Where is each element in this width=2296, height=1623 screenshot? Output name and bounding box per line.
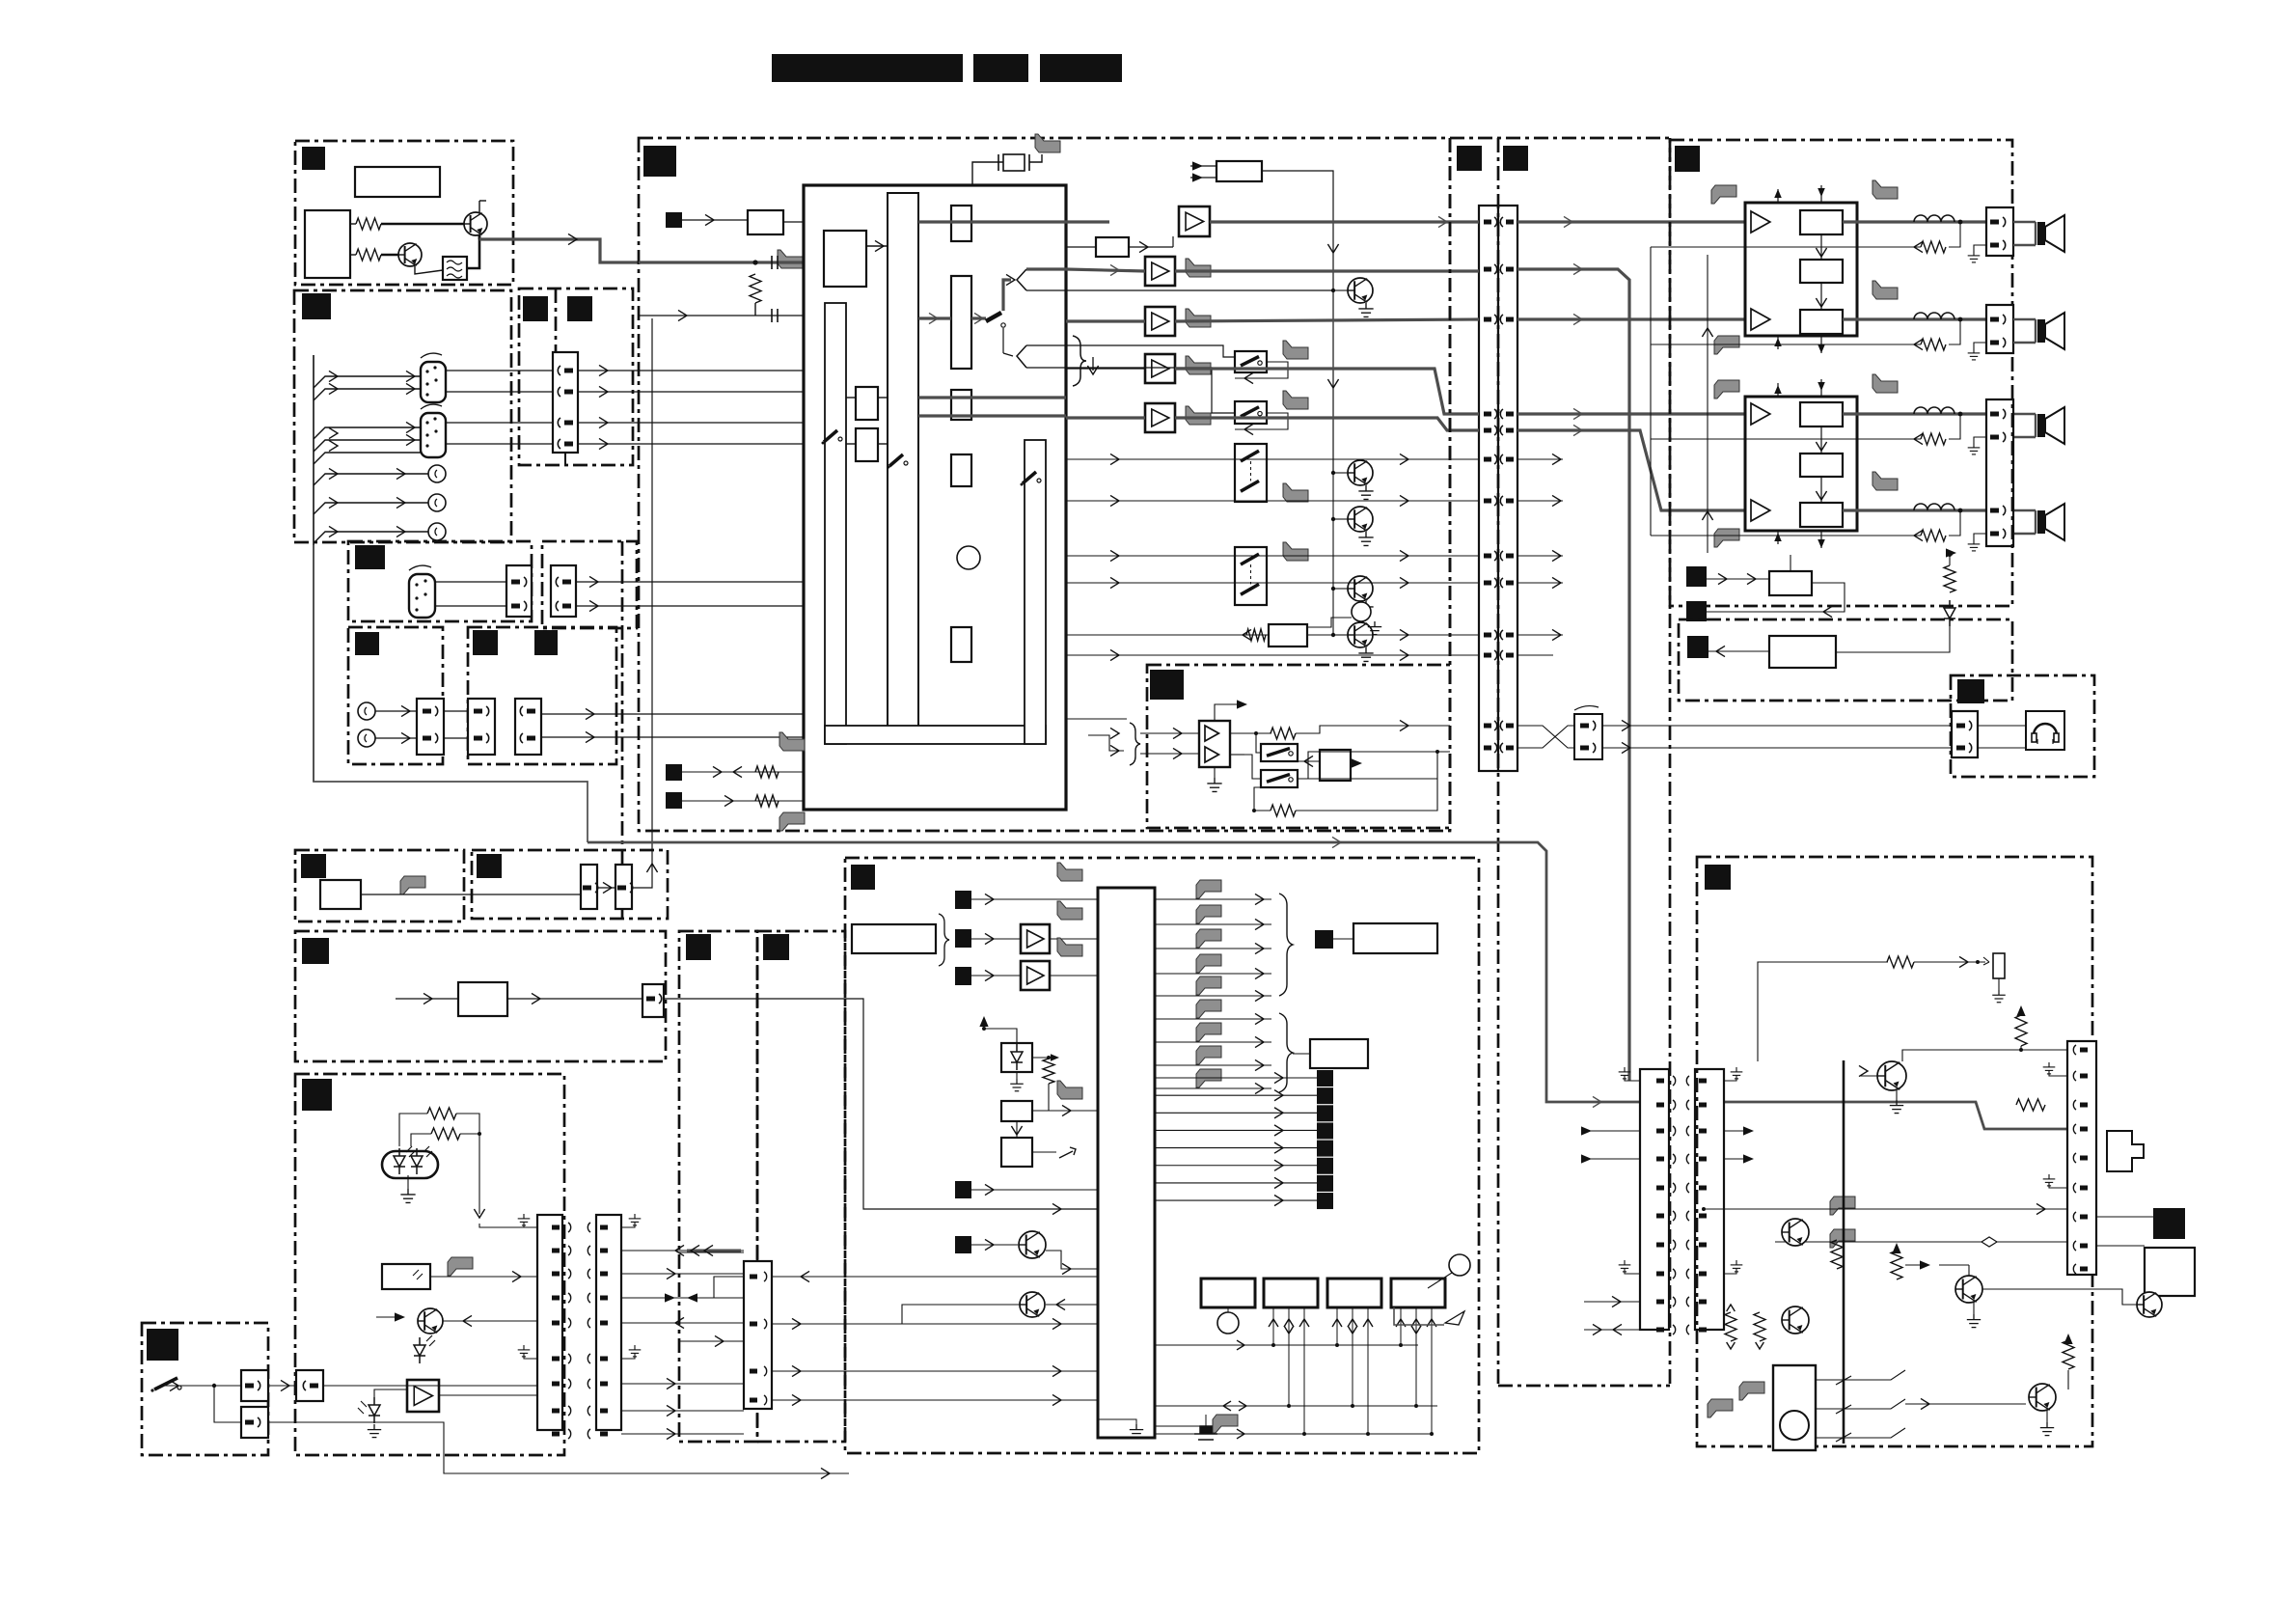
amp A4 [1145, 354, 1175, 383]
socket B3 [428, 523, 446, 540]
wire brace g2 to J5 [1293, 1053, 1310, 1055]
flag g2 1 [1196, 1023, 1221, 1041]
feedback vertical line [1650, 247, 1652, 536]
thick wire core to pin box2 [918, 316, 951, 319]
amp A3 [1145, 307, 1175, 336]
CN-P1/P2 pin row y1145 [1656, 1103, 1664, 1108]
wire P row9 [1584, 1301, 1640, 1303]
IC1 U-channel left column [825, 303, 846, 744]
module C label 1 [523, 296, 548, 321]
U3 rect top [1800, 210, 1843, 234]
transistor QM3 [1348, 507, 1373, 532]
wire circle to key [1428, 1273, 1452, 1288]
wire F1 out [361, 894, 581, 895]
tuner bus vertical wire [313, 355, 314, 782]
wire M3 feed [1190, 165, 1216, 167]
CN-H1/H2 pin row y1272 [552, 1225, 560, 1230]
antenna connector CN-B2 [421, 404, 446, 457]
wire MCU to sq 8 [1155, 1199, 1317, 1201]
resistor RH2 [431, 1128, 460, 1140]
wire H to K row y1320 [621, 1273, 744, 1275]
resistor RL3 [1891, 1251, 1902, 1279]
wire IC to A5 [1066, 416, 1145, 419]
CN-H1/H2 pin row y1296 [552, 1249, 560, 1253]
ground QM5 [1358, 647, 1373, 661]
CN-P1/P2 pin row y1378 [1656, 1328, 1664, 1333]
label J in 4 [955, 1181, 971, 1198]
wire to speaker ch1 [2013, 221, 2036, 223]
switch box N1 [1261, 744, 1298, 761]
wire CD to CN-D1 a [435, 581, 506, 583]
flag SW2 [1283, 391, 1308, 409]
label out sq 7 [1317, 1175, 1333, 1192]
wire CN-D2 out a [576, 581, 804, 583]
wire standby 2 [1707, 583, 1845, 612]
ground CN-P1 row8 [1625, 1268, 1640, 1274]
wire front row y604 [1517, 582, 1563, 584]
capacitor C2 [772, 309, 778, 322]
transistor QP3 [1782, 1307, 1809, 1334]
flag J bottom [1213, 1415, 1238, 1433]
wire pot [1307, 618, 1352, 627]
connector CN-I3 [296, 1370, 323, 1401]
wire zener out [1032, 1057, 1052, 1059]
dc plug icon [2107, 1131, 2144, 1171]
wire front row y576 [1517, 555, 1563, 557]
wire row 679 [1066, 654, 1479, 656]
CN-P1/P2 pin row y1260 [1656, 1214, 1664, 1219]
wire MCU to sq 1 [1155, 1077, 1317, 1079]
ground zener [1016, 1072, 1018, 1079]
arrow brace down [1087, 366, 1098, 374]
transistor QM4 [1348, 576, 1373, 601]
key return diag [1445, 1311, 1464, 1325]
wire MCU bottom flag [1155, 1415, 1206, 1426]
wire MCU right g2 1 [1155, 1041, 1271, 1043]
wire A2 to RA2 to Q2 [350, 254, 356, 256]
key block 2 [1264, 1279, 1318, 1307]
thick switch riser [1003, 280, 1011, 311]
title bar word 2 [973, 54, 1028, 82]
antenna connector CN-B1 [421, 353, 446, 402]
wire CN-R1 row7 [2096, 1245, 2145, 1247]
thick wire U out ch1 [1843, 220, 1986, 223]
wire sw interconnect 2 [1235, 413, 1288, 429]
flag H2 [448, 1257, 473, 1276]
wire H-top to MCU routing [664, 999, 1098, 1209]
wire base QM4 [1333, 588, 1348, 590]
junction ch3 [1958, 412, 1963, 417]
wire QJ1 out [1046, 1251, 1098, 1269]
flag J osc [1057, 1081, 1082, 1099]
wire R1 to line2 [754, 303, 756, 316]
wire CN-B1 to CN-C1 line 1 [446, 370, 553, 371]
module G label [477, 854, 502, 878]
thin funnel1 lower out [1026, 289, 1333, 291]
wire front row y476 [1517, 458, 1563, 460]
flag psu 1 [1830, 1197, 1855, 1215]
wire protection out [1708, 650, 1769, 652]
front board bottom edge [1498, 1385, 1670, 1388]
jack J1 [358, 702, 375, 720]
arrow RL2 top [2016, 1005, 2025, 1016]
wire CN-I2 onward [268, 1422, 849, 1473]
connector CN-H2 [596, 1215, 621, 1430]
wire flag psu run1 [1704, 1208, 2067, 1210]
wire tuner aux 1 [314, 474, 429, 485]
CN-M1/F1 pin row y576 [1484, 554, 1491, 559]
CN-H1/H2 pin row y1371 [552, 1321, 560, 1326]
wire MCU right g2 3 [1155, 1087, 1271, 1089]
CN-M1/F1 pin row y658 [1484, 633, 1491, 638]
speaker connector box ch3/4 [1986, 399, 2013, 546]
crystal X1 [998, 154, 1029, 171]
thick out of pin box2 [971, 316, 986, 319]
wire QH1 in [443, 1320, 537, 1322]
wire brace to amp R [1140, 753, 1199, 755]
ground speaker return ch3 [1974, 437, 1986, 443]
ground QM4 [1358, 601, 1373, 615]
flag U3 in bottom [1714, 336, 1739, 354]
wire A2 to RA1 to Q1 [350, 223, 356, 225]
module K1 label [686, 934, 711, 960]
switch SW4 [1235, 547, 1267, 605]
headphone amp box U2 [1199, 721, 1230, 767]
wire U2 R out [1230, 754, 1244, 756]
socket B1 [428, 465, 446, 482]
wire mute [1066, 246, 1096, 248]
wire CN-I3 onward [323, 1385, 537, 1387]
flag U4 in top [1714, 380, 1739, 399]
transistor QP5 [2137, 1292, 2162, 1317]
wire M3 down bus [1262, 171, 1333, 473]
junction ch2 [1958, 317, 1963, 322]
wire line2 into IC [639, 315, 804, 316]
label J in 2 [955, 929, 971, 948]
IC1 switch glyph 2 [888, 454, 909, 469]
thick wire ch5 (rear R) [1175, 418, 1479, 430]
transistor QJ2 [1020, 1292, 1045, 1317]
rect standby ctrl [1769, 571, 1812, 595]
wire mid row y519 [1066, 500, 1479, 502]
wire aux R to IC [541, 736, 804, 738]
speaker SP3 [2037, 407, 2064, 444]
capacitor C1 [772, 256, 778, 269]
wire H-top out [507, 998, 642, 1000]
wire antenna feed 2 [314, 389, 421, 400]
ground CN-H1 row8 [524, 1353, 537, 1359]
module H box (display/key board) [295, 1074, 564, 1455]
connector CN-H1 [537, 1215, 562, 1430]
resistor RL4 [1725, 1312, 1736, 1341]
flag data1 [779, 732, 805, 751]
U3 top arrows [1777, 189, 1779, 203]
resistor R amp prot [1944, 565, 1955, 592]
wire RJ1 [1048, 1058, 1050, 1059]
rect J2 (osc) [1001, 1101, 1032, 1121]
module A label [302, 147, 325, 170]
wire MCU to sq 7 [1155, 1182, 1317, 1184]
ground QM1 [1358, 303, 1373, 316]
transistor QM5 [1348, 622, 1373, 647]
thick wire core to pin1 to A1 [918, 220, 1109, 223]
wire CN-C1 out [578, 370, 825, 371]
connector CN-P1 [1640, 1069, 1669, 1330]
wire rectJ2 [1032, 1084, 1049, 1111]
thick wires pin3 outputs [918, 396, 1066, 399]
wire G link [597, 887, 615, 889]
jack J2 [358, 729, 375, 747]
wire motor ctl [1905, 1403, 2026, 1405]
ground QP4 [1973, 1303, 1975, 1314]
label right of psu [2153, 1208, 2185, 1239]
resistor R1 [750, 274, 761, 303]
wire H to K row y1345 [621, 1297, 744, 1299]
wire MCU right g2 2 [1155, 1064, 1271, 1066]
module D2 box (main board link) [542, 541, 637, 628]
front board right edge [1669, 138, 1672, 1386]
wire J in 5 [971, 1244, 1018, 1246]
module K2 box [757, 931, 845, 1442]
CD connector symbol [409, 565, 435, 618]
speaker SP1 [2037, 215, 2064, 252]
module K1 box [679, 931, 757, 1442]
offpage arrow prot [1946, 548, 1956, 557]
U4 internal arrows [1820, 426, 1822, 454]
wire sw interconnect 1 [1235, 362, 1288, 378]
front board label 1 [1457, 146, 1482, 171]
module E label [355, 632, 379, 655]
module C inner boundary [555, 289, 558, 352]
wire K row a [679, 1252, 744, 1253]
wire MCU right g1 1 [1155, 923, 1271, 925]
wire mid row y576 [1066, 555, 1479, 557]
CN-M1/F1 pin row y446 [1484, 428, 1491, 433]
MCU IC2 outline [1098, 888, 1155, 1438]
connector CN-E2 [468, 699, 495, 755]
rect mute M2 [1096, 237, 1129, 257]
module H-top box [295, 931, 666, 1061]
wire to speaker ch4 [2013, 509, 2036, 511]
junction ch1 [1958, 220, 1963, 225]
wire bus down to transistors [1332, 473, 1334, 635]
wire tuner aux 2 [314, 503, 429, 514]
wire J1 to CN-E1 [375, 710, 417, 712]
LED 2 [411, 1148, 423, 1174]
wire MCU to sq 3 [1155, 1112, 1317, 1114]
wire H to K row y1371 [621, 1322, 744, 1324]
connector CN-Htop [642, 984, 664, 1017]
label out sq 6 [1317, 1158, 1333, 1174]
wire IC to A2 [1066, 269, 1145, 271]
wire QP5 [1982, 1289, 2137, 1305]
funnel2 arms out [1026, 344, 1066, 346]
module B label [302, 293, 331, 319]
switch SW3 [1235, 444, 1267, 502]
wire M1 to IC [783, 221, 888, 223]
power amp module label [1675, 146, 1700, 172]
wire N3 to sw [1298, 760, 1320, 762]
LED 1 [394, 1148, 405, 1174]
wire psu top run [1758, 962, 1888, 1061]
wire J in 1 [971, 898, 1098, 900]
wire ampJ2 out [1050, 975, 1098, 977]
wire front row y519 [1517, 500, 1563, 502]
flag U3 in top [1711, 185, 1736, 204]
IC1 block front-end [824, 231, 866, 287]
flag motor 2 [1708, 1399, 1733, 1417]
wire MCU to sq 4 [1155, 1129, 1317, 1131]
IC1 inner tall rect [888, 193, 918, 736]
wire row 658 cont [1307, 634, 1479, 636]
connector CN-P2 [1695, 1069, 1724, 1330]
ground speaker return ch2 [1974, 343, 1986, 348]
IC1 funnel merge 1 [1017, 269, 1026, 290]
wire QP1 to conn [2021, 1049, 2067, 1051]
flag A2 [1186, 259, 1211, 277]
arrow down to J3 [1016, 1121, 1018, 1138]
wire MCU to sq 2 [1155, 1094, 1317, 1096]
transistor Q2 [398, 243, 422, 266]
rect H-top (loading motor drv) [458, 982, 507, 1016]
wire hp R to jack [1602, 747, 1952, 749]
ground QP6 [2046, 1411, 2048, 1422]
thick wire ch2 to PSU [1175, 269, 1479, 272]
ground CN-R1 a [2049, 1070, 2067, 1076]
U4 rect bottom [1800, 503, 1843, 527]
arrow QP4 [1920, 1260, 1930, 1269]
connector CN-D2 [551, 565, 576, 617]
LED pair (FL tube) [382, 1151, 438, 1178]
wire flag psu run2 [1775, 1241, 2067, 1243]
wire MCU to sq 6 [1155, 1165, 1317, 1167]
CN-P1/P2 pin row y1120 [1656, 1079, 1664, 1084]
CN-P1/P2 pin row y1201 [1656, 1157, 1664, 1162]
wire QP1 base [1860, 1075, 1877, 1077]
transistor QP6 [2029, 1384, 2056, 1411]
module C label 2 [567, 296, 592, 321]
ground pot [1368, 621, 1381, 635]
key block 3 [1327, 1279, 1381, 1307]
wire base QM5 [1333, 634, 1348, 636]
thick main routing wire tuner to PSU [314, 545, 588, 842]
wire key1 to circle [1227, 1307, 1229, 1312]
wire SW-I to CN-I2 [214, 1386, 241, 1422]
rect J5 [1310, 1039, 1368, 1068]
thick wire U out ch2 [1843, 317, 1986, 320]
CN-P1/P2 pin row y1172 [1656, 1129, 1664, 1134]
label out sq 4 [1317, 1122, 1333, 1139]
transistor QJ1 [1019, 1231, 1046, 1258]
IC1 circle marker [957, 546, 980, 569]
switch alt contact drop [1002, 328, 1004, 353]
wire K rows to MCU [772, 1276, 1098, 1278]
coil L3 [1914, 407, 1954, 414]
flag motor 1 [1739, 1382, 1764, 1400]
amp box H [407, 1380, 439, 1412]
switch SW1 [1235, 351, 1267, 372]
resistor RH1 [427, 1108, 456, 1119]
wire H to K row y1486 [621, 1433, 744, 1435]
wire data1 [682, 771, 804, 773]
module N label [1150, 670, 1184, 700]
wire CN-C1 out [578, 422, 825, 424]
diode D amp prot [1944, 600, 1955, 626]
ground CN-R1 b [2049, 1182, 2067, 1188]
wires to hp jack [1978, 725, 2026, 727]
wire hp L to jack [1602, 725, 1952, 727]
ground U2 [1214, 767, 1216, 778]
CN-M1/F1 pin row y331 [1484, 317, 1491, 322]
cap J bottom [1194, 1426, 1217, 1440]
wires RH [399, 1114, 427, 1146]
module N box (headphone amp) [1147, 665, 1450, 828]
speaker connector CN-SP2 [1986, 305, 2013, 353]
key bus row 3 [1155, 1433, 1433, 1435]
resistor RA1 [356, 218, 381, 230]
ground speaker return ch4 [1974, 534, 1986, 539]
module E2 label 1 [473, 630, 498, 655]
wire CN-B2 to CN-C1 line 4 [446, 443, 553, 445]
connector CN-F1 (front board) [1498, 206, 1517, 771]
thick wire U out ch4 [1843, 509, 1986, 511]
module K2 label [763, 934, 789, 960]
U3 triangle bottom [1751, 309, 1770, 330]
rect H2 (remote sensor) [382, 1264, 430, 1289]
module F label [301, 854, 326, 878]
wire ampH out [439, 1394, 537, 1396]
thick wire ch3 (front R) [1175, 319, 1479, 321]
thick wire U out ch3 [1843, 412, 1986, 415]
resistor RL6 [1831, 1240, 1843, 1269]
wire J in 2 [971, 938, 1021, 940]
flag F1 [400, 876, 425, 894]
connector CN-HP1 [1574, 706, 1602, 759]
wire antenna feed 3 [314, 427, 421, 439]
CN-M1/F1 pin row y230 [1484, 220, 1491, 225]
flag A3 [1186, 309, 1211, 327]
module I box (power switch) [142, 1323, 268, 1455]
ground speaker return ch1 [1974, 245, 1986, 251]
wire mid row y476 [1066, 458, 1479, 460]
module G box [472, 850, 668, 919]
module H-top label [302, 938, 329, 964]
thick wire ch4 (rear L) [1175, 369, 1479, 414]
rect top-right M3 [1216, 161, 1262, 181]
flag g1 0 [1196, 880, 1221, 898]
resistor RN2 [1271, 805, 1296, 816]
pot circle [1352, 602, 1371, 621]
wire CN-C1 out [578, 443, 825, 445]
arrow zener up [979, 1016, 988, 1027]
headphone jack icon [2026, 711, 2064, 750]
LED QH1 (IR) [414, 1337, 425, 1363]
module HP label [1957, 679, 1984, 703]
wire front row 679 [1517, 654, 1553, 656]
connector CN-G1 [581, 865, 597, 909]
CN-M1/F1 pin row y679 [1484, 653, 1491, 658]
flag M1 [778, 250, 803, 268]
socket B2 [428, 494, 446, 511]
ground CN-P2 top [1724, 1075, 1736, 1081]
U2 triangle 2 [1205, 747, 1218, 762]
connector CN-M1 (main board) [1479, 206, 1498, 771]
brace g2 [1279, 1013, 1293, 1092]
wire antenna feed 5 [314, 453, 421, 464]
top dash-dot segment front board [1450, 137, 1670, 140]
transistor Q1 [464, 212, 487, 235]
coil L2 [1914, 313, 1954, 319]
